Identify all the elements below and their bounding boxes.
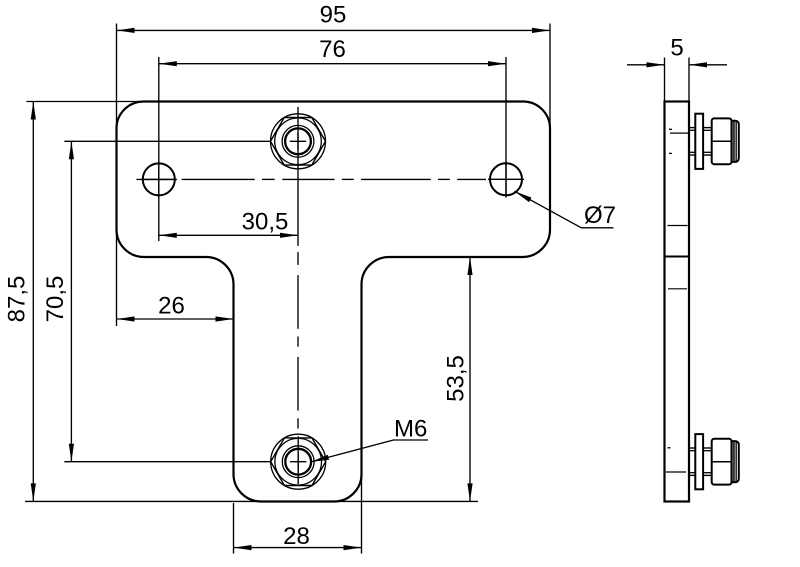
svg-text:53,5: 53,5 — [443, 355, 470, 402]
svg-text:70,5: 70,5 — [42, 276, 69, 323]
svg-text:30,5: 30,5 — [242, 209, 289, 236]
svg-text:26: 26 — [158, 293, 185, 320]
svg-text:5: 5 — [670, 35, 683, 62]
svg-text:Ø7: Ø7 — [584, 202, 616, 229]
svg-text:95: 95 — [320, 2, 347, 29]
svg-text:28: 28 — [283, 523, 310, 550]
svg-text:M6: M6 — [394, 416, 427, 443]
svg-text:76: 76 — [319, 36, 346, 63]
svg-text:87,5: 87,5 — [4, 276, 31, 323]
